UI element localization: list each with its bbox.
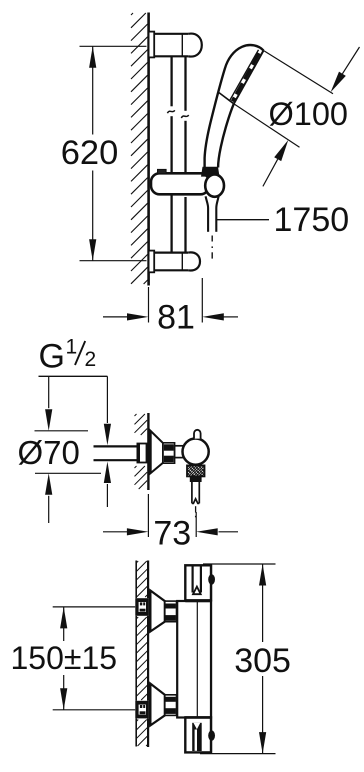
svg-text:620: 620 xyxy=(61,134,119,172)
hose cone below holder xyxy=(206,196,219,208)
escutcheon cone (middle) xyxy=(150,431,163,474)
svg-text:G: G xyxy=(39,338,65,376)
supply pipe G1/2 xyxy=(94,445,138,447)
wall hatching (bottom) xyxy=(136,561,138,563)
dimension 305 line + arrows xyxy=(262,564,264,642)
svg-text:Ø70: Ø70 xyxy=(18,434,80,471)
valve body circle xyxy=(183,439,209,465)
outlet centerline (dash-dot) xyxy=(195,506,197,512)
svg-text:1750: 1750 xyxy=(274,201,350,239)
wall (middle drawing) xyxy=(147,413,149,490)
bottom wall bracket xyxy=(149,253,189,271)
G 1/2 leader arrow to pipe top xyxy=(106,376,108,423)
dimension 305 label xyxy=(234,644,292,674)
svg-text:150±15: 150±15 xyxy=(11,640,118,676)
thermostat body xyxy=(177,601,211,718)
svg-text:73: 73 xyxy=(153,515,191,553)
handle inlet dark cone xyxy=(201,167,220,177)
dimension D100 arrows xyxy=(342,47,359,74)
spray face dark marks xyxy=(253,53,259,65)
thermostat top cap (knob) xyxy=(185,565,211,600)
slider holder body xyxy=(151,173,209,194)
dimension D100 extension lines xyxy=(264,51,334,94)
hand shower head face xyxy=(234,51,264,104)
shower rail (vertical bar) xyxy=(170,56,172,106)
dimension 620 line + arrows xyxy=(92,46,94,134)
upper escutcheon cone xyxy=(150,590,165,631)
dimension 73 line + arrows xyxy=(103,531,128,533)
grooved union nut xyxy=(163,443,175,463)
upper grooved union xyxy=(165,601,177,622)
head/handle junction line xyxy=(219,93,234,104)
lower escutcheon cone xyxy=(150,684,165,726)
dimension D70 extension lines xyxy=(35,430,89,432)
dimension 620 extension line bottom xyxy=(80,260,147,262)
thermostat front face line xyxy=(210,565,212,753)
thermostat bottom cap (knob) xyxy=(185,717,211,752)
hose connection nut (cross-hatched) xyxy=(187,465,205,476)
pipe union nut in wall xyxy=(137,444,148,463)
dimension 81 line + arrows xyxy=(103,316,128,318)
dimension 150±15 extension lines xyxy=(53,606,136,608)
hose xyxy=(207,208,209,232)
dimension 73 extension lines xyxy=(147,494,149,537)
dimension 150±15 line + arrows xyxy=(63,607,65,641)
valve neck connector xyxy=(175,446,184,458)
valve stem on top xyxy=(194,430,201,439)
svg-text:1: 1 xyxy=(66,336,78,359)
top wall bracket xyxy=(149,34,189,57)
wall hatching (middle) xyxy=(135,414,137,416)
G 1/2 arrow from below pipe xyxy=(104,462,111,484)
upper supply nut in wall xyxy=(135,598,149,616)
hand shower handle xyxy=(205,45,264,167)
outlet tube xyxy=(192,482,199,503)
wall (bottom drawing) xyxy=(135,561,137,599)
G 1/2 leader underline xyxy=(39,375,108,377)
cap/body junction lines xyxy=(185,600,211,602)
lower supply nut in wall xyxy=(135,701,149,719)
dimension D70 line + arrows xyxy=(48,376,50,408)
hose length leader line xyxy=(216,219,269,221)
svg-text:81: 81 xyxy=(157,299,195,337)
dimension 150±15 label xyxy=(11,643,114,673)
holder top tab xyxy=(158,169,167,173)
outlet dark band xyxy=(190,476,202,482)
wall (top drawing) xyxy=(147,13,150,286)
rail break marks xyxy=(167,110,174,113)
wall hatching (top) xyxy=(131,13,133,15)
svg-text:2: 2 xyxy=(85,348,97,371)
hose centerline (dash-dot) xyxy=(211,236,213,242)
lower grooved union xyxy=(165,695,177,716)
svg-text:Ø100: Ø100 xyxy=(269,96,349,132)
holder clamp lobe xyxy=(205,174,224,196)
dimension 620 extension line top xyxy=(80,45,147,47)
svg-text:305: 305 xyxy=(234,642,291,680)
dimension 81 extension lines xyxy=(148,287,150,323)
dimension 305 extension lines xyxy=(203,563,276,565)
